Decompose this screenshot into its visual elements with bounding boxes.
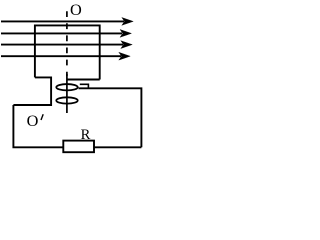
wire: external circuit bottom right [94, 146, 141, 148]
field line B2 [1, 30, 131, 38]
field line B4 [1, 52, 130, 60]
wire: coil right lead to axle [67, 79, 100, 81]
field line B1 [1, 18, 133, 26]
svg-text:O: O [27, 111, 39, 130]
prime of O' [41, 114, 43, 120]
wire: external circuit left side [13, 105, 63, 147]
brush on top ring [80, 84, 89, 88]
field line B3 [1, 41, 132, 49]
axis OO' dashed part [66, 11, 68, 76]
axle solid part [66, 74, 68, 113]
slip ring top [56, 84, 77, 90]
wire: top ring brush to right side of external circuit [79, 88, 142, 147]
resistor R box [63, 141, 94, 153]
svg-text:R: R [81, 127, 91, 143]
coil rectangle (top edge, left edge, right edge) [35, 25, 100, 79]
svg-text:O: O [70, 0, 82, 19]
wire: coil left lead down to external circuit [13, 77, 51, 105]
slip ring bottom [56, 97, 77, 103]
